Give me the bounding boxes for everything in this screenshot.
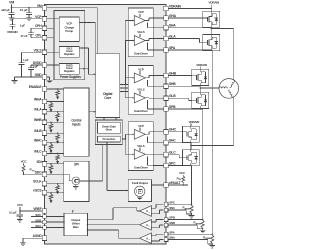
svg-text:VSLS: VSLS: [33, 48, 42, 52]
svg-text:VDRAIN: VDRAIN: [169, 4, 182, 8]
svg-text:INLA: INLA: [34, 108, 42, 112]
svg-text:SDI: SDI: [36, 160, 41, 164]
svg-text:nSCS: nSCS: [33, 189, 42, 193]
svg-text:Gate Driver: Gate Driver: [134, 52, 149, 56]
svg-text:47 nF: 47 nF: [21, 34, 28, 38]
svg-text:SHC: SHC: [169, 139, 176, 143]
svg-text:Power Supplies: Power Supplies: [60, 75, 81, 79]
svg-text:GND: GND: [35, 73, 43, 77]
svg-text:VDRAIN: VDRAIN: [209, 0, 219, 4]
svg-text:INLB: INLB: [34, 129, 42, 133]
svg-text:CPH: CPH: [35, 24, 42, 28]
svg-text:GLB: GLB: [169, 94, 176, 98]
svg-text:VGLS: VGLS: [137, 30, 144, 34]
svg-text:0.1 µF: 0.1 µF: [20, 8, 28, 12]
svg-text:Regulator: Regulator: [64, 52, 75, 56]
svg-text:Fault Output: Fault Output: [132, 181, 148, 185]
svg-text:SOB: SOB: [35, 218, 41, 222]
svg-text:DVDD: DVDD: [33, 61, 43, 65]
svg-text:ENABLE: ENABLE: [29, 85, 43, 89]
svg-text:GHA: GHA: [169, 14, 177, 18]
svg-text:INHA: INHA: [34, 98, 42, 102]
svg-text:SHB: SHB: [169, 82, 176, 86]
svg-text:VDRAIN: VDRAIN: [196, 63, 206, 67]
svg-text:VCP: VCP: [138, 67, 144, 71]
svg-text:Inputs: Inputs: [72, 122, 81, 126]
svg-text:INHC: INHC: [34, 139, 42, 143]
svg-text:SPB: SPB: [169, 105, 176, 109]
svg-text:Drive: Drive: [106, 128, 113, 132]
svg-text:SPC: SPC: [169, 161, 176, 165]
svg-text:VCC: VCC: [21, 160, 28, 164]
svg-text:VDRAIN: VDRAIN: [189, 120, 199, 124]
svg-text:1 µF: 1 µF: [23, 58, 29, 62]
svg-text:GLA: GLA: [169, 34, 176, 38]
svg-text:0.1 µF: 0.1 µF: [9, 210, 17, 214]
svg-text:VCP: VCP: [138, 124, 144, 128]
svg-text:VM: VM: [9, 1, 14, 5]
svg-text:VCP: VCP: [35, 15, 42, 19]
svg-text:AGND: AGND: [33, 234, 43, 238]
svg-text:SCLK: SCLK: [33, 180, 42, 184]
svg-text:Protection: Protection: [103, 137, 116, 141]
svg-text:INLC: INLC: [34, 149, 42, 153]
svg-text:SPA: SPA: [169, 46, 176, 50]
svg-text:VGLS: VGLS: [137, 144, 144, 148]
svg-text:VCC: VCC: [17, 203, 24, 207]
svg-text:GHB: GHB: [169, 71, 177, 75]
svg-text:≥10 µF: ≥10 µF: [1, 8, 10, 12]
svg-text:CPL: CPL: [35, 34, 41, 38]
svg-text:VGLS: VGLS: [137, 88, 144, 92]
svg-text:GLC: GLC: [169, 151, 176, 155]
svg-text:GHC: GHC: [169, 128, 177, 132]
svg-text:VM: VM: [37, 4, 42, 8]
svg-text:SPI: SPI: [74, 163, 79, 167]
svg-text:INHB: INHB: [34, 118, 42, 122]
svg-text:VREF: VREF: [33, 207, 41, 211]
svg-text:1 µF: 1 µF: [33, 64, 39, 68]
svg-text:Core: Core: [104, 96, 111, 100]
svg-text:Gate Driver: Gate Driver: [134, 109, 149, 113]
svg-text:Pump: Pump: [65, 29, 73, 33]
svg-text:VDRAIN: VDRAIN: [7, 30, 17, 34]
svg-text:nFAULT: nFAULT: [169, 181, 182, 185]
svg-text:1 µF: 1 µF: [20, 24, 26, 28]
svg-text:VCP: VCP: [138, 10, 144, 14]
svg-text:VCC: VCC: [179, 171, 186, 175]
svg-text:Bias: Bias: [73, 225, 79, 229]
svg-text:Gate Driver: Gate Driver: [134, 165, 149, 169]
svg-text:SDO: SDO: [35, 170, 42, 174]
svg-text:Regulator: Regulator: [64, 69, 75, 73]
svg-text:SPB: SPB: [169, 216, 175, 220]
svg-text:SNB: SNB: [169, 221, 175, 225]
svg-text:SHA: SHA: [169, 24, 176, 28]
